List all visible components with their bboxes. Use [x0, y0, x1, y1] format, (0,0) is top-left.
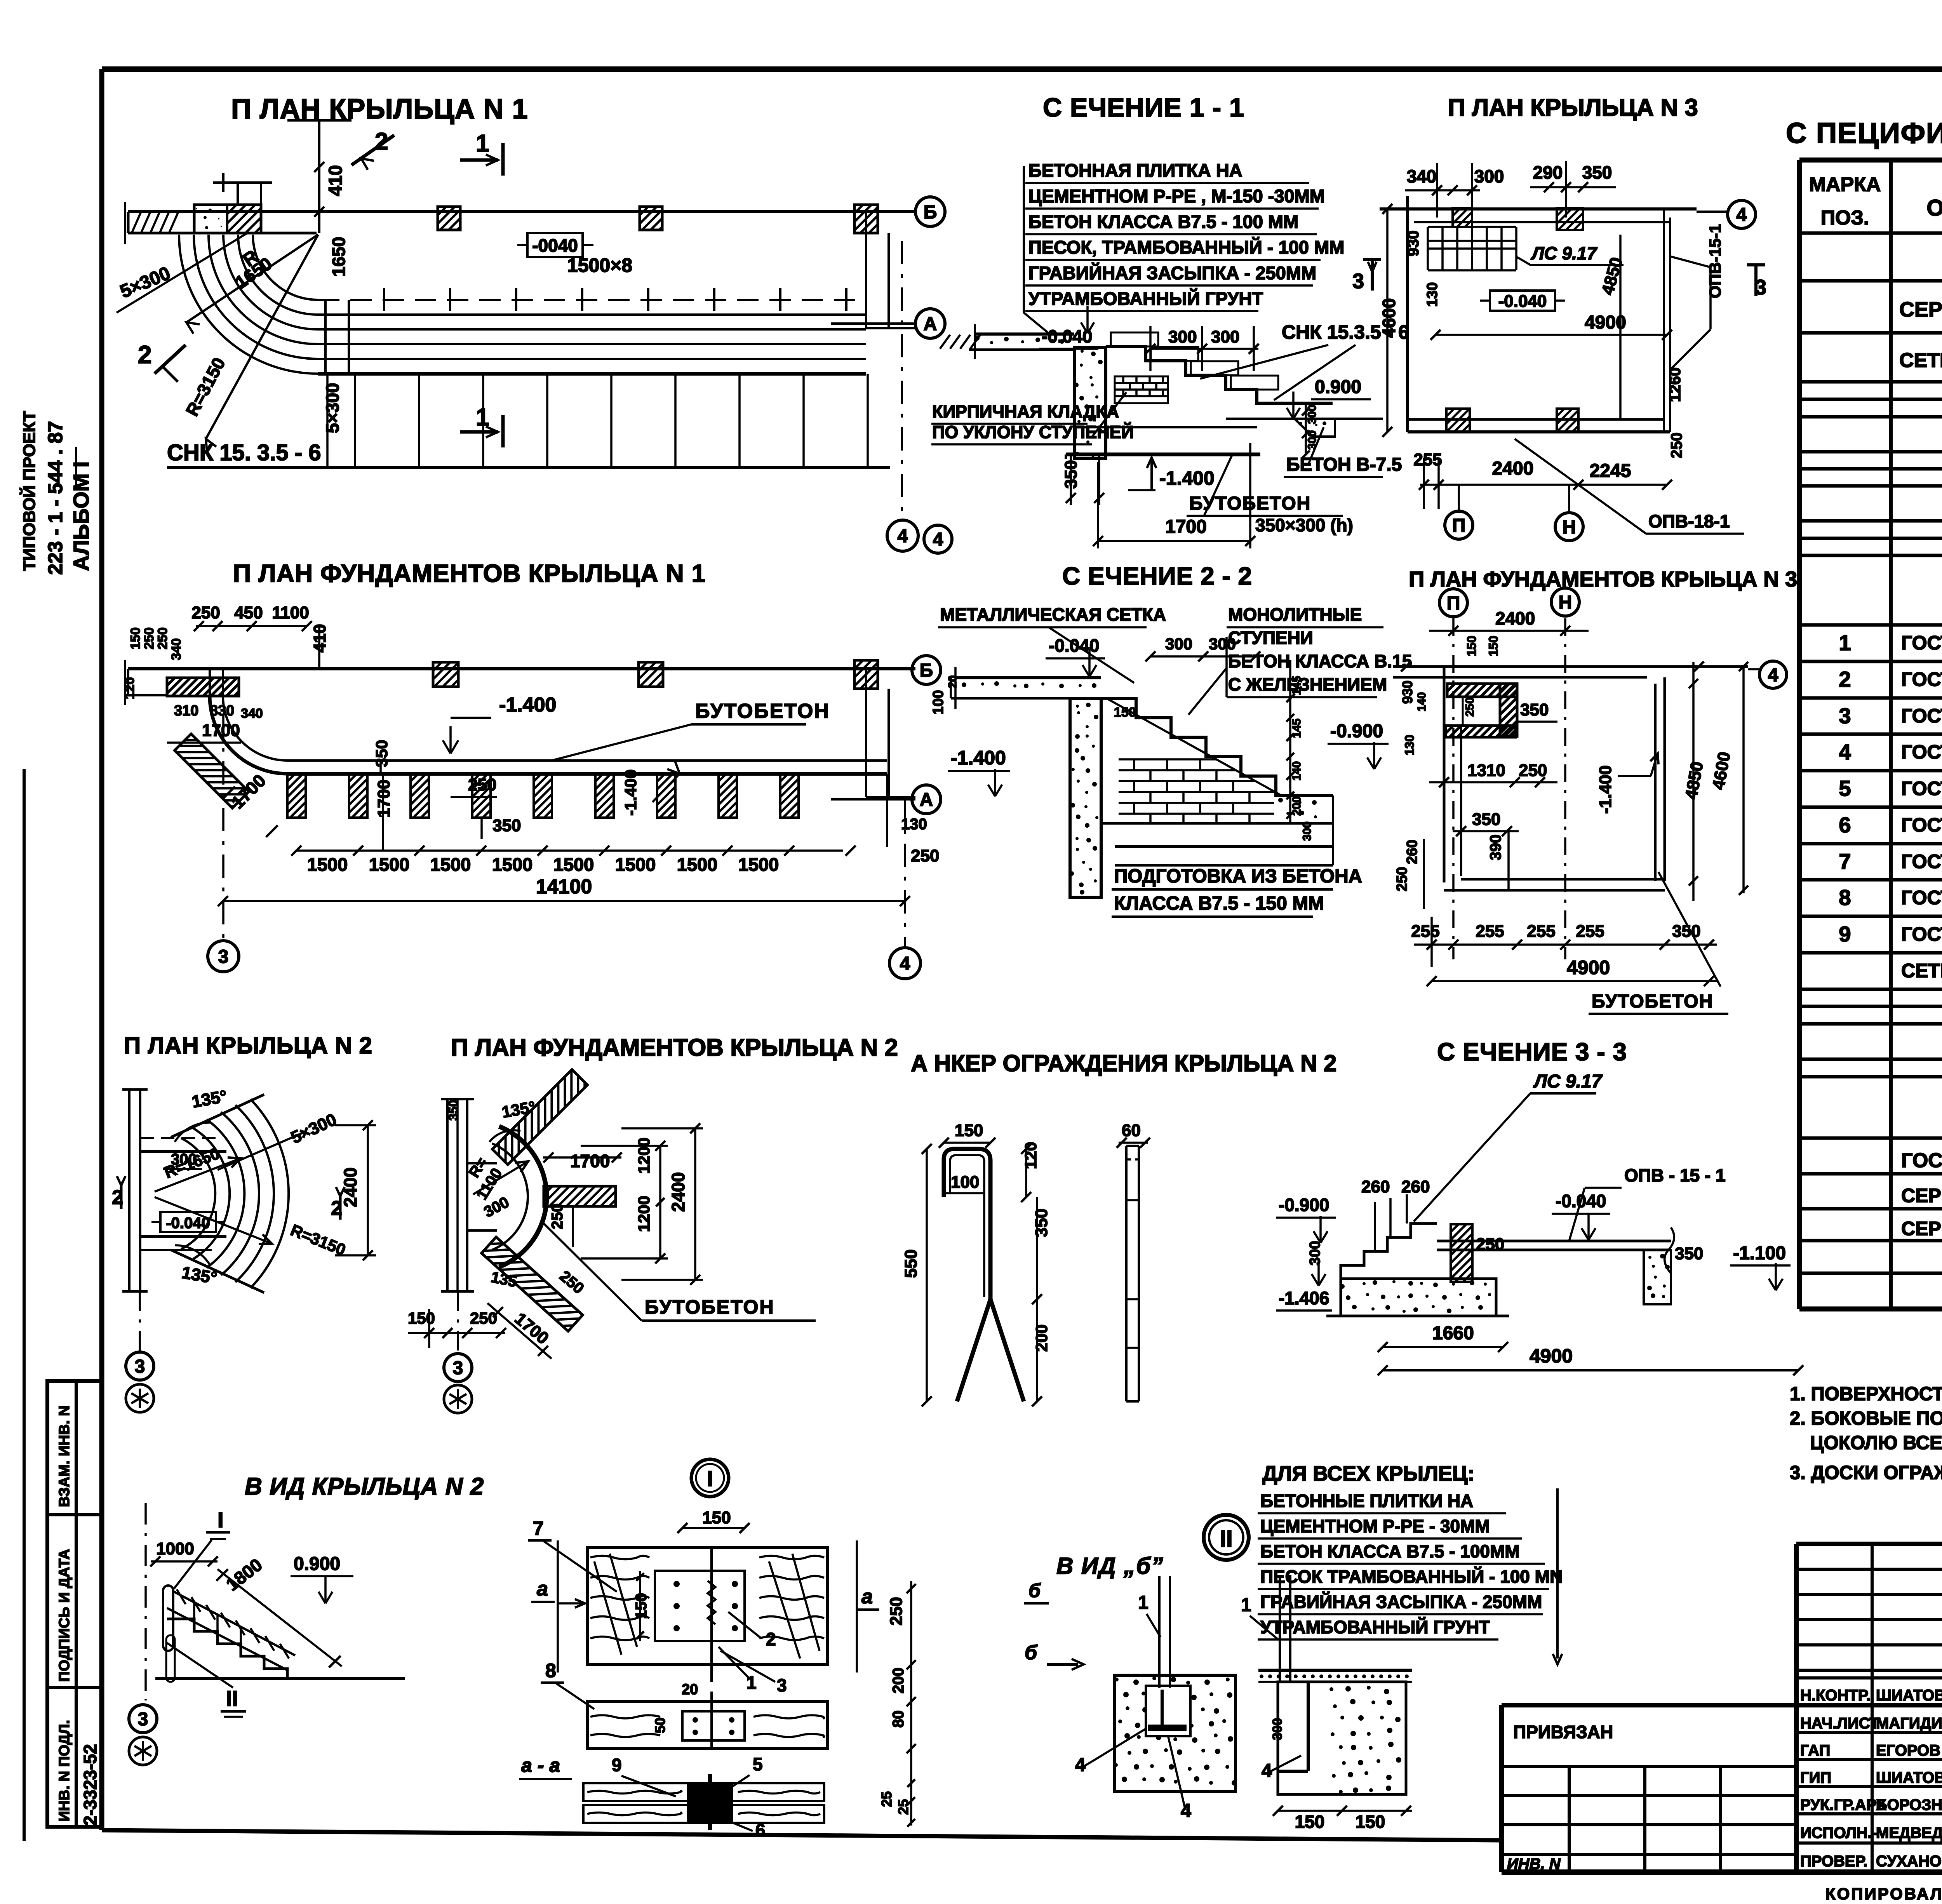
- sec22 slab: [951, 667, 1101, 709]
- note 1: [1790, 1383, 1942, 1405]
- svg-text:МАГИДИН: МАГИДИН: [1876, 1715, 1942, 1732]
- dims right end fund1: [887, 774, 939, 865]
- sec11 axis circle 4: [924, 525, 952, 553]
- svg-text:ЦЕМЕНТНОМ Р-РЕ , М-150 -30ММ: ЦЕМЕНТНОМ Р-РЕ , М-150 -30ММ: [1028, 186, 1325, 206]
- labels 9 5 detail I: [612, 1754, 763, 1796]
- svg-text:260: 260: [1401, 1177, 1430, 1196]
- svg-text:9: 9: [612, 1755, 622, 1775]
- svg-text:150: 150: [1356, 1812, 1385, 1832]
- svg-text:П ЛАН ФУНДАМЕНТОВ КРЫЛЬЦА N: П ЛАН ФУНДАМЕНТОВ КРЫЛЬЦА N 2: [451, 1034, 898, 1061]
- axis leader fund2: [457, 1291, 459, 1352]
- svg-text:340: 340: [1407, 166, 1437, 186]
- svg-text:350: 350: [492, 816, 521, 835]
- svg-text:ГОСТ 103-76*: ГОСТ 103-76*: [1901, 668, 1942, 690]
- sec11 level -0.040: [1039, 306, 1098, 349]
- svg-text:-1.100: -1.100: [1733, 1243, 1786, 1264]
- svg-text:1260: 1260: [1667, 367, 1684, 402]
- svg-text:250: 250: [470, 1309, 497, 1327]
- sec22 step dims: [1286, 660, 1314, 841]
- svg-text:А НКЕР ОГРАЖДЕНИЯ КРЫЛЬЦА N: А НКЕР ОГРАЖДЕНИЯ КРЫЛЬЦА N 2: [911, 1050, 1336, 1076]
- svg-text:С ЕЧЕНИЕ 2 - 2: С ЕЧЕНИЕ 2 - 2: [1062, 562, 1252, 590]
- detail circle I: [691, 1459, 729, 1497]
- dim 2400 plan2: [335, 1120, 376, 1260]
- right wall verticals fund1: [866, 669, 915, 797]
- svg-text:б: б: [1025, 1641, 1038, 1664]
- dim 1800 view2: [216, 1554, 342, 1667]
- sec22 brick hatch: [1119, 759, 1274, 823]
- svg-text:I: I: [218, 1507, 224, 1532]
- svg-text:В ИД „б”: В ИД „б”: [1056, 1553, 1164, 1579]
- fan step arcs plan2: [181, 1099, 289, 1288]
- sec22 подготовка text: [1112, 866, 1362, 917]
- detail I inner plate: [655, 1547, 745, 1682]
- title План фундаментов крыльца N1: [233, 559, 706, 587]
- sec11 wall column: [1074, 347, 1106, 459]
- axis circle 4 plan1: [887, 520, 918, 551]
- svg-text:СЕТКА ГОСТ 8478-81: СЕТКА ГОСТ 8478-81: [1901, 960, 1942, 982]
- vid b figure1 block: [1114, 1675, 1237, 1791]
- svg-text:РУК.ГР.АРХ: РУК.ГР.АРХ: [1800, 1796, 1886, 1813]
- plan3 dim 930: [1405, 230, 1441, 307]
- left stamp label ПОДПИСЬ И ДАТА: [56, 1549, 73, 1682]
- svg-text:25: 25: [879, 1791, 894, 1807]
- svg-text:300: 300: [1474, 166, 1504, 186]
- svg-text:ДЛЯ ВСЕХ КРЫЛЕЦ:: ДЛЯ ВСЕХ КРЫЛЕЦ:: [1262, 1462, 1474, 1485]
- svg-text:В ИД КРЫЛЬЦА N 2: В ИД КРЫЛЬЦА N 2: [245, 1473, 484, 1500]
- axis leader plan2: [139, 1291, 141, 1351]
- svg-text:3: 3: [218, 947, 229, 967]
- axis Б wall line fund1: [128, 667, 915, 670]
- pier small 1 plan1: [438, 207, 460, 230]
- svg-text:200: 200: [1290, 796, 1303, 816]
- svg-text:2400: 2400: [1495, 608, 1535, 628]
- left sheet edge line: [23, 769, 26, 1841]
- svg-text:С ЕЧЕНИЕ 3 - 3: С ЕЧЕНИЕ 3 - 3: [1437, 1038, 1627, 1066]
- vid b figure1 labels: [1075, 1592, 1191, 1821]
- svg-text:ГАП: ГАП: [1800, 1742, 1830, 1759]
- svg-text:1500: 1500: [430, 854, 471, 875]
- fund3 bottom dims: [1411, 917, 1717, 967]
- fund3 level -1.400: [1596, 754, 1658, 814]
- sec22 bottom slabs: [1101, 795, 1333, 865]
- plan3 pier 2: [1557, 208, 1583, 230]
- axis circle star view2: [129, 1737, 157, 1765]
- specification table title: [1786, 117, 1942, 149]
- table row СЕТКА ГОСТ 8478-71: [1899, 346, 1942, 383]
- svg-text:250: 250: [191, 603, 220, 622]
- svg-text:ГИП: ГИП: [1800, 1769, 1831, 1786]
- svg-text:5: 5: [1839, 776, 1851, 801]
- svg-text:БЕТОН КЛАССА В.15: БЕТОН КЛАССА В.15: [1228, 651, 1412, 671]
- axis line 4 fund1: [904, 797, 906, 947]
- axis line 3 fund1: [222, 715, 224, 940]
- svg-text:а: а: [537, 1578, 548, 1600]
- svg-text:60: 60: [1122, 1121, 1141, 1140]
- level -1.406 sec33: [1276, 1258, 1332, 1311]
- svg-text:МЕТАЛЛИЧЕСКАЯ СЕТКА: МЕТАЛЛИЧЕСКАЯ СЕТКА: [940, 604, 1166, 625]
- svg-text:250: 250: [1476, 1235, 1504, 1254]
- table header MARKA POZ: [1809, 173, 1881, 229]
- svg-text:350: 350: [1520, 700, 1549, 719]
- svg-text:150: 150: [633, 1593, 650, 1619]
- svg-text:II: II: [1220, 1526, 1232, 1552]
- svg-text:100: 100: [951, 1173, 979, 1192]
- stamp КОПИРОВАЛ: [1825, 1885, 1942, 1903]
- svg-text:3: 3: [1352, 270, 1364, 293]
- svg-text:Н: Н: [1563, 517, 1576, 538]
- svg-text:4: 4: [1839, 740, 1851, 764]
- detail I wood grain right: [759, 1554, 824, 1659]
- wall verticals plan2: [122, 1089, 226, 1291]
- axis circle Б fund1: [912, 656, 941, 684]
- svg-text:ОБОЗНАЧЕНИЕ: ОБОЗНАЧЕНИЕ: [1926, 195, 1942, 221]
- sec11 foundation band: [1066, 427, 1260, 459]
- plan3 level box -0.040: [1480, 291, 1565, 311]
- svg-text:300: 300: [1165, 635, 1192, 653]
- svg-text:СЕРИЯ 1.256 - 1: СЕРИЯ 1.256 - 1: [1901, 1185, 1942, 1206]
- svg-text:150: 150: [128, 627, 143, 649]
- title Сечение 1-1: [1043, 93, 1244, 122]
- svg-text:200: 200: [1032, 1324, 1051, 1352]
- title План фундаментов крыльца N2: [451, 1034, 898, 1061]
- vid b figure2 post: [1280, 1575, 1290, 1682]
- plan3 bottom piers: [1446, 409, 1578, 432]
- svg-text:СУХАНОВА: СУХАНОВА: [1876, 1853, 1942, 1870]
- sec22 wall column: [1069, 698, 1101, 897]
- fund3 dim 350 390: [1453, 810, 1519, 889]
- axis circle А plan1: [915, 309, 945, 338]
- svg-text:ЛС 9.17: ЛС 9.17: [1533, 1071, 1603, 1092]
- level -0.040 sec33: [1552, 1191, 1610, 1240]
- svg-text:II: II: [226, 1686, 238, 1711]
- svg-text:150: 150: [955, 1121, 983, 1140]
- svg-text:150: 150: [1295, 1812, 1325, 1832]
- dim 1700 diagonal fund1: [223, 770, 278, 837]
- anchor bar right figure: [1126, 1146, 1139, 1401]
- svg-text:ПОДГОТОВКА ИЗ БЕТОНА: ПОДГОТОВКА ИЗ БЕТОНА: [1114, 866, 1362, 887]
- svg-text:-0.040: -0.040: [1556, 1191, 1606, 1211]
- svg-text:1660: 1660: [1432, 1323, 1474, 1344]
- dim 5x300 vertical plan1: [322, 374, 343, 467]
- dim 4900 sec33: [1378, 1345, 1803, 1375]
- dim 150 detail I: [677, 1508, 750, 1533]
- svg-text:БЕТОННЫЕ ПЛИТКИ НА: БЕТОННЫЕ ПЛИТКИ НА: [1260, 1491, 1473, 1511]
- fund3 axis circle П: [1439, 589, 1467, 959]
- angle 135 fund2: [446, 1097, 537, 1290]
- axis А line plan1: [831, 322, 915, 325]
- dim 350 R fund1: [372, 740, 393, 851]
- wall band left fund1: [125, 660, 239, 705]
- column above wall plan1: [213, 173, 272, 205]
- svg-text:-1.400: -1.400: [499, 694, 556, 716]
- pier right fund1: [854, 660, 878, 689]
- svg-text:МЕДВЕДЕВА: МЕДВЕДЕВА: [1876, 1824, 1942, 1841]
- plan3 top dims: [1405, 161, 1616, 218]
- svg-text:255: 255: [1411, 922, 1439, 941]
- svg-text:СТУПЕНИ: СТУПЕНИ: [1228, 628, 1313, 648]
- svg-text:ГОСТ 103-76 *: ГОСТ 103-76 *: [1901, 705, 1942, 727]
- svg-text:ГОСТ 8486-66 *: ГОСТ 8486-66 *: [1901, 851, 1942, 872]
- svg-text:ПРИВЯЗАН: ПРИВЯЗАН: [1513, 1722, 1613, 1742]
- label для всех крылец: [1262, 1462, 1474, 1485]
- svg-text:250: 250: [1519, 761, 1547, 780]
- level box -0040 plan1: [517, 233, 593, 257]
- svg-text:260: 260: [1404, 840, 1420, 864]
- svg-text:-1.400: -1.400: [1159, 467, 1215, 489]
- svg-text:1. ПОВЕРХНОСТИ МОНОЛИТНЫХ С: 1. ПОВЕРХНОСТИ МОНОЛИТНЫХ СТУПЕНЕЙ ЗАТЕР…: [1790, 1383, 1942, 1405]
- plan3 section mark 3 right: [1747, 265, 1766, 299]
- title block grid: [1502, 1544, 1942, 1872]
- fund3 top wall lines: [1393, 661, 1748, 677]
- svg-text:П: П: [1452, 515, 1466, 536]
- svg-text:1: 1: [1138, 1592, 1148, 1613]
- sec11 brick hatch: [1115, 376, 1168, 403]
- axis circle 3 fund1: [208, 941, 239, 972]
- detail I wood grain left: [590, 1554, 649, 1655]
- fund3 dims left: [1394, 839, 1424, 909]
- anchor dim 60: [1117, 1121, 1150, 1148]
- detail I right dims: [879, 1581, 916, 1827]
- svg-text:2400: 2400: [668, 1172, 688, 1212]
- svg-text:6: 6: [755, 1820, 766, 1840]
- svg-text:ПРОВЕР.: ПРОВЕР.: [1800, 1853, 1867, 1870]
- axis circle Б plan1: [915, 197, 945, 226]
- svg-text:0.900: 0.900: [294, 1554, 340, 1574]
- svg-text:830: 830: [210, 703, 234, 719]
- radius R3150 arrow plan2: [155, 1197, 348, 1259]
- wall verticals fund2: [441, 1099, 497, 1291]
- svg-text:1: 1: [1839, 630, 1851, 655]
- foundation main line fund1: [287, 772, 887, 776]
- svg-text:ГОСТ 10657-80: ГОСТ 10657-80: [1901, 814, 1942, 836]
- slab sec33: [1437, 1227, 1674, 1273]
- plan3 label ОПВ-18-1: [1515, 439, 1744, 534]
- foundation top line fund1: [287, 759, 887, 762]
- section 1-1 layers text stack: [1024, 160, 1344, 333]
- plan3 section mark 3 left: [1352, 259, 1381, 293]
- svg-text:1200: 1200: [635, 1138, 653, 1174]
- fund3 dims right: [1682, 662, 1748, 901]
- specification table grid: [1799, 160, 1942, 1309]
- title Сечение 2-2: [1062, 562, 1252, 590]
- svg-text:БЕТОННАЯ ПЛИТКА НА: БЕТОННАЯ ПЛИТКА НА: [1028, 160, 1242, 181]
- foundation corner arcs fund1: [210, 669, 287, 774]
- section cut mark 2 top: [352, 128, 394, 170]
- svg-text:П ЛАН ФУНДАМЕНТОВ КРЫЛЬЦА N: П ЛАН ФУНДАМЕНТОВ КРЫЛЬЦА N 1: [233, 559, 706, 587]
- svg-text:3: 3: [138, 1709, 148, 1730]
- radius line R=1650 plan1: [186, 235, 318, 334]
- sec11 right dims: [1302, 403, 1319, 458]
- svg-text:4900: 4900: [1567, 957, 1610, 978]
- dim 250 fund2: [549, 1203, 573, 1247]
- svg-text:3. ДОСКИ ОГРАЖДЕНИЯ ОКРАСИТЬ: 3. ДОСКИ ОГРАЖДЕНИЯ ОКРАСИТЬ МАСЛЯНОЙ КР…: [1790, 1462, 1942, 1483]
- svg-text:1: 1: [1241, 1595, 1251, 1615]
- svg-text:1700: 1700: [202, 721, 240, 740]
- dim 5x300 diagonal plan1: [117, 232, 249, 313]
- svg-text:КЛАССА В7.5 - 150 ММ: КЛАССА В7.5 - 150 ММ: [1114, 893, 1324, 914]
- svg-text:БУТОБЕТОН: БУТОБЕТОН: [695, 700, 830, 722]
- svg-text:6: 6: [1839, 813, 1851, 837]
- svg-text:1500: 1500: [492, 854, 533, 875]
- diagonal hatched strip upper fund2: [492, 1070, 588, 1165]
- svg-text:350: 350: [1472, 810, 1500, 829]
- vid b figure1 post: [1159, 1576, 1170, 1688]
- svg-text:250: 250: [142, 627, 157, 649]
- svg-text:310: 310: [174, 703, 198, 719]
- svg-text:СЕРИЯ 1.256 - 1: СЕРИЯ 1.256 - 1: [1901, 1218, 1942, 1239]
- label б section right: [1024, 1580, 1049, 1603]
- vid b figure2 slab: [1258, 1670, 1412, 1682]
- section marks 2 plan2: [112, 1176, 345, 1220]
- hatched bar fund2: [544, 1186, 616, 1206]
- svg-text:1310: 1310: [1467, 761, 1505, 780]
- svg-text:350: 350: [446, 1100, 460, 1121]
- svg-text:1500: 1500: [307, 854, 348, 875]
- table row серия 1.256-1 ОПВ-15-1: [1901, 1216, 1942, 1239]
- sec11 porch slab: [940, 324, 1074, 359]
- svg-text:ГОСТ 8486-66 *: ГОСТ 8486-66 *: [1901, 923, 1942, 945]
- rail hatch view2: [177, 1589, 289, 1659]
- plan3 label ЛС9.17: [1517, 243, 1624, 265]
- plan3 axis circle П: [1445, 485, 1473, 539]
- svg-text:300: 300: [1209, 635, 1236, 653]
- diagonal pier at corner fund1: [175, 734, 249, 808]
- dim 1700 diag fund2: [487, 1267, 587, 1359]
- dim 410 plan1: [287, 120, 352, 233]
- svg-text:930: 930: [1399, 680, 1415, 704]
- fan radial edges plan2: [171, 1095, 264, 1293]
- svg-text:-1.406: -1.406: [1279, 1288, 1329, 1308]
- svg-text:7: 7: [533, 1518, 544, 1539]
- stamp ИНВ.N: [1507, 1855, 1561, 1873]
- svg-text:БУТОБЕТОН: БУТОБЕТОН: [645, 1296, 775, 1318]
- svg-text:ШИАТОВА: ШИАТОВА: [1876, 1687, 1942, 1704]
- vid b figure1 pocket: [1146, 1686, 1190, 1736]
- right support sec33: [1644, 1250, 1671, 1304]
- svg-text:14100: 14100: [536, 875, 592, 898]
- dim 5x300 plan2: [218, 1110, 339, 1170]
- svg-text:ИНВ. N ПОДЛ.: ИНВ. N ПОДЛ.: [56, 1720, 73, 1822]
- svg-text:П: П: [1447, 593, 1460, 614]
- svg-text:ЛС 9.17: ЛС 9.17: [1531, 243, 1598, 263]
- svg-text:ВЗАМ. ИНВ. N: ВЗАМ. ИНВ. N: [56, 1405, 73, 1507]
- sec11 label бетон В-7.5: [1284, 427, 1402, 477]
- svg-text:130: 130: [1424, 282, 1441, 307]
- svg-text:С ПЕЦИФИКАЦИЯ МАТЕРИАЛОВ Н: С ПЕЦИФИКАЦИЯ МАТЕРИАЛОВ НА КРЫЛЬЦА N N …: [1786, 117, 1942, 149]
- sec22 dim 100: [930, 675, 1136, 720]
- svg-text:1000: 1000: [156, 1539, 194, 1558]
- table row ГОСТ 8717.0-84: [1901, 1145, 1942, 1172]
- vid b figure2 block: [1278, 1682, 1406, 1794]
- svg-text:20: 20: [946, 675, 959, 688]
- svg-text:ПОДПИСЬ И ДАТА: ПОДПИСЬ И ДАТА: [56, 1549, 73, 1682]
- axis А line fund1: [831, 798, 915, 801]
- svg-text:-1.400: -1.400: [1596, 765, 1615, 814]
- plan3 axis circle 4: [1697, 200, 1756, 228]
- axis circle star fund2: [444, 1385, 472, 1413]
- level -0.900 sec33: [1276, 1195, 1336, 1243]
- note 2: [1790, 1408, 1942, 1453]
- svg-text:390: 390: [1487, 834, 1504, 860]
- svg-text:150: 150: [702, 1508, 731, 1527]
- angle labels 135 plan2: [175, 1087, 228, 1288]
- plan3 railing grid: [1428, 227, 1516, 270]
- svg-text:ПОЗ.: ПОЗ.: [1821, 207, 1869, 229]
- fund3 axis circle Н: [1551, 588, 1579, 959]
- left stamp label ВЗАМ.ИНВ.N: [56, 1405, 73, 1507]
- label бутобетон fund2: [543, 1223, 816, 1321]
- diagonal hatched strip lower fund2: [482, 1237, 583, 1331]
- svg-text:КОПИРОВАЛ: КОПИРОВАЛ: [1825, 1885, 1942, 1903]
- svg-text:4: 4: [933, 529, 943, 550]
- svg-text:8: 8: [545, 1660, 556, 1681]
- svg-text:450: 450: [234, 603, 263, 622]
- svg-text:120: 120: [122, 677, 137, 699]
- svg-text:350: 350: [1582, 162, 1612, 183]
- table header OBOZNACHENIE: [1926, 195, 1942, 221]
- plan3 wall line: [1380, 209, 1697, 222]
- svg-text:290: 290: [1533, 162, 1563, 183]
- svg-text:410: 410: [325, 165, 346, 196]
- svg-text:8: 8: [1839, 885, 1851, 910]
- svg-text:7: 7: [1839, 849, 1851, 874]
- svg-text:250: 250: [155, 627, 170, 649]
- sec11 step slabs: [1111, 332, 1278, 390]
- svg-text:1700: 1700: [1165, 517, 1207, 537]
- svg-text:1500: 1500: [615, 854, 656, 875]
- svg-text:ЦЕМЕНТНОМ Р-РЕ - 30ММ: ЦЕМЕНТНОМ Р-РЕ - 30ММ: [1260, 1516, 1490, 1536]
- sec22 dim 300 300: [1145, 635, 1260, 661]
- svg-text:1200: 1200: [635, 1196, 653, 1232]
- fund3 corner foundation hatched: [1446, 684, 1517, 737]
- svg-text:1100: 1100: [272, 603, 309, 622]
- svg-text:145: 145: [1290, 719, 1303, 738]
- foundation piers row fund1: [287, 774, 799, 818]
- anchor dims left: [901, 1121, 1051, 1406]
- svg-text:БУТОБЕТОН: БУТОБЕТОН: [1592, 991, 1713, 1012]
- svg-text:550: 550: [901, 1250, 921, 1278]
- svg-text:80: 80: [890, 1711, 907, 1728]
- axis circle 3 view2: [129, 1705, 157, 1733]
- svg-text:250: 250: [1394, 867, 1410, 891]
- svg-text:340: 340: [241, 706, 263, 721]
- svg-text:340: 340: [169, 638, 184, 660]
- vid b figure2 labels: [1241, 1595, 1301, 1781]
- svg-text:ШИАТОВА: ШИАТОВА: [1876, 1769, 1942, 1786]
- svg-text:СЕРИЯ 1.255.1 - 1: СЕРИЯ 1.255.1 - 1: [1899, 298, 1942, 321]
- sec11 dim 300 300: [1145, 326, 1259, 371]
- svg-text:300: 300: [1301, 821, 1314, 841]
- plan3 axis circle Н: [1555, 485, 1583, 541]
- left stamp label ИНВ.N ПОДЛ.: [56, 1720, 73, 1822]
- pier small 2 fund1: [639, 662, 663, 687]
- svg-text:250: 250: [549, 1203, 566, 1229]
- svg-text:150: 150: [408, 1309, 435, 1327]
- mark I view2: [174, 1507, 230, 1589]
- svg-text:-1.400: -1.400: [621, 769, 640, 816]
- svg-text:260: 260: [1361, 1177, 1390, 1196]
- svg-text:I: I: [707, 1466, 713, 1491]
- svg-text:140: 140: [1415, 692, 1428, 712]
- title Анкер ограждения крыльца N2: [911, 1050, 1336, 1076]
- baseline and СНК 15.3.5-6 label plan1: [167, 440, 890, 467]
- svg-text:УТРАМБОВАННЫЙ ГРУНТ: УТРАМБОВАННЫЙ ГРУНТ: [1028, 288, 1263, 309]
- radius line R=3150 plan1: [182, 235, 318, 452]
- svg-text:-0.900: -0.900: [1330, 721, 1383, 741]
- svg-text:СЕТКА ГОСТ 8478-71: СЕТКА ГОСТ 8478-71: [1899, 349, 1942, 372]
- svg-text:255: 255: [1476, 922, 1504, 941]
- pier big at wall plan1: [194, 205, 261, 233]
